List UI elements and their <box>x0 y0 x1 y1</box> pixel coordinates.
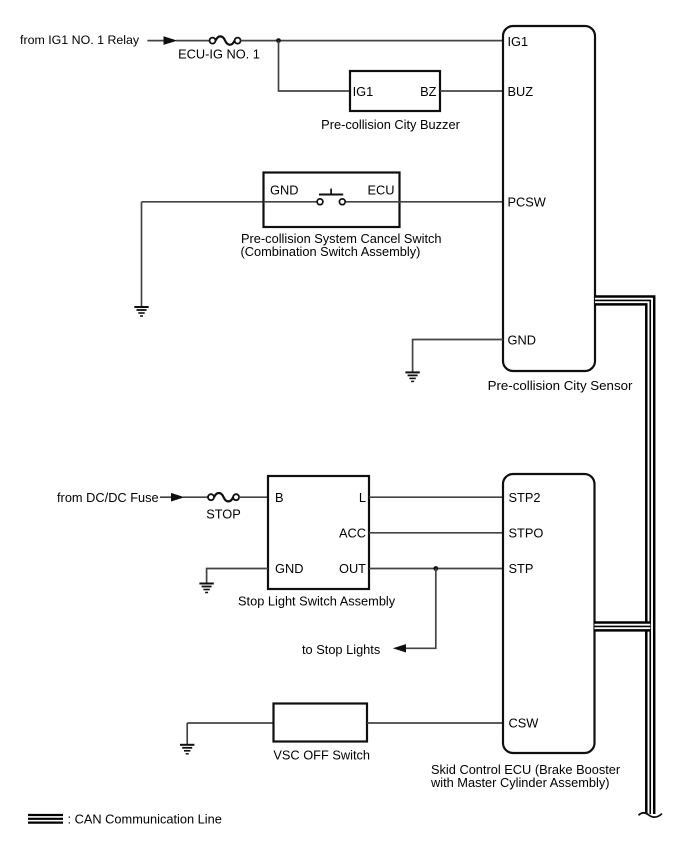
svg-text:BUZ: BUZ <box>508 84 534 99</box>
svg-text:from DC/DC Fuse: from DC/DC Fuse <box>57 490 159 505</box>
wire: arrow to fuse <box>176 40 210 42</box>
fuse ECU-IG NO. 1 <box>210 36 241 44</box>
switch S1: momentary contact symbol <box>264 189 400 205</box>
svg-text:B: B <box>275 490 284 505</box>
svg-text:Pre-collision City Sensor: Pre-collision City Sensor <box>488 378 633 393</box>
svg-text:IG1: IG1 <box>353 84 374 99</box>
svg-text:CSW: CSW <box>509 716 540 731</box>
wire: ground run to cancel switch GND <box>142 201 264 203</box>
junction: IG1 branch node <box>276 38 281 43</box>
arrow: power flow into IG1 circuit <box>164 36 178 45</box>
wire: fuse feed lead-in <box>160 496 172 498</box>
ground G2 (sensor) <box>405 372 419 381</box>
ECU box: Skid Control ECU <box>503 474 595 753</box>
wire: STOP fuse to switch B pin <box>239 496 268 498</box>
CAN bus stub: skid control ECU to main run <box>595 621 651 631</box>
svg-text:from IG1 NO. 1 Relay: from IG1 NO. 1 Relay <box>20 33 140 47</box>
arrow: power flow into STOP fuse <box>171 493 185 502</box>
svg-text:to Stop Lights: to Stop Lights <box>302 642 380 657</box>
svg-text:ECU-IG NO. 1: ECU-IG NO. 1 <box>178 47 260 62</box>
wire: buzzer BZ to sensor BUZ pin <box>440 90 503 92</box>
wire: L to STP2 <box>369 496 503 498</box>
svg-text:GND: GND <box>275 561 303 576</box>
wire: arrow to STOP fuse <box>183 496 208 498</box>
svg-text:GND: GND <box>508 333 536 348</box>
svg-text:ECU: ECU <box>367 183 394 198</box>
wire: ground to VSC OFF switch <box>187 722 273 724</box>
component box: Pre-collision City Buzzer <box>350 71 440 111</box>
wire: branch to stop lights <box>406 569 436 649</box>
svg-text:ACC: ACC <box>339 526 366 541</box>
wire: ACC to STPO <box>369 532 503 534</box>
CAN bus break squiggle at bottom <box>639 813 663 817</box>
svg-text:STOP: STOP <box>206 507 241 522</box>
svg-text:OUT: OUT <box>339 561 366 576</box>
wire: VSC OFF switch to CSW <box>367 722 503 724</box>
svg-text:Pre-collision City Buzzer: Pre-collision City Buzzer <box>321 117 460 132</box>
ground G3 (stop light switch) <box>199 584 213 593</box>
svg-text:: CAN Communication Line: : CAN Communication Line <box>68 811 222 826</box>
ground G4 (VSC OFF switch) <box>180 745 194 754</box>
svg-text:GND: GND <box>270 183 298 198</box>
svg-text:STP2: STP2 <box>509 490 541 505</box>
wire: relay feed lead-in <box>147 40 165 42</box>
svg-text:IG1: IG1 <box>508 34 529 49</box>
component box: VSC OFF Switch <box>274 704 368 742</box>
ECU box: Pre-collision City Sensor <box>503 26 595 371</box>
wire: cancel ECU to sensor PCSW <box>400 201 504 203</box>
legend symbol: CAN communication line sample <box>28 815 63 823</box>
svg-text:L: L <box>359 490 366 505</box>
arrow: to stop lights <box>393 644 406 652</box>
svg-text:VSC OFF Switch: VSC OFF Switch <box>273 747 370 762</box>
component box: Stop Light Switch Assembly <box>268 476 369 589</box>
svg-text:PCSW: PCSW <box>508 195 547 210</box>
svg-text:with Master Cylinder Assembly): with Master Cylinder Assembly) <box>430 775 610 790</box>
junction: stop light branch node <box>433 566 438 571</box>
svg-text:STPO: STPO <box>509 526 544 541</box>
svg-text:(Combination Switch Assembly): (Combination Switch Assembly) <box>241 244 421 259</box>
ground G1 (cancel switch) <box>134 307 148 316</box>
CAN bus: sensor branch and main vertical run <box>595 300 650 814</box>
wire: fuse to sensor IG1 pin <box>241 40 503 42</box>
wire: cancel GND drop <box>141 202 143 306</box>
wire: branch down to buzzer <box>279 41 351 91</box>
wire: sensor GND to ground <box>413 340 503 372</box>
component box: Pre-collision System Cancel Switch <box>264 173 400 228</box>
svg-text:Stop Light Switch Assembly: Stop Light Switch Assembly <box>238 593 396 608</box>
svg-text:STP: STP <box>509 561 534 576</box>
fuse STOP <box>208 493 239 501</box>
wire: OUT to STP <box>369 568 503 570</box>
svg-text:BZ: BZ <box>420 84 437 99</box>
wire: switch GND to ground <box>207 569 268 583</box>
wire: VSC OFF switch GND drop <box>186 723 188 744</box>
